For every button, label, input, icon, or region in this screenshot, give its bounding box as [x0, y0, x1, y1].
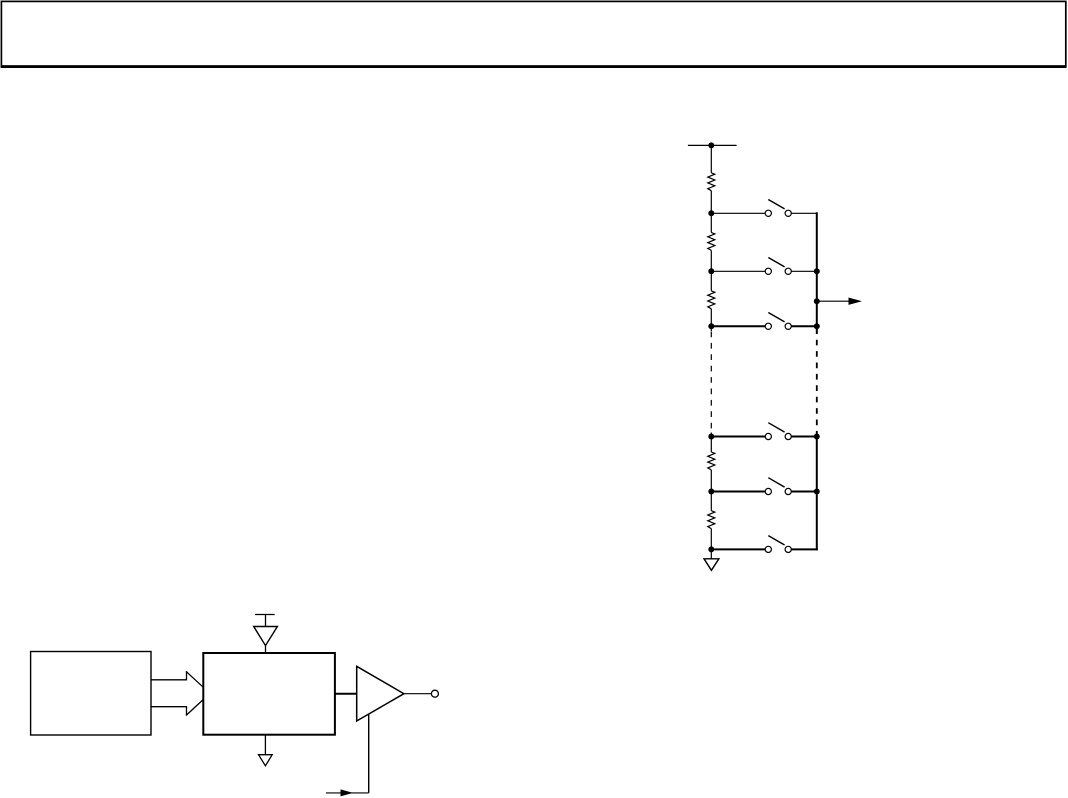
wire output bus dashed [816, 334, 818, 433]
wire row 3 right [791, 325, 817, 327]
wire triangle to box 2 top [265, 646, 267, 653]
junction dot bus output tap [814, 298, 820, 304]
wire feedback horizontal [326, 792, 369, 794]
wire row 5 left [711, 491, 765, 493]
junction dot bus row 2 [814, 268, 820, 274]
output terminal circle [431, 690, 438, 697]
ground below box 2 [259, 755, 273, 766]
wire output bus upper [816, 212, 818, 334]
header box [1, 1, 1065, 66]
wire row 2 left [711, 270, 765, 272]
wire R1 to node 1 [710, 191, 712, 233]
ground (ladder bottom) [704, 559, 719, 571]
wire row 1 left [711, 212, 765, 214]
junction dot node 4 [708, 434, 714, 440]
block latch DAC (box 2) [203, 653, 335, 735]
junction dot bus row 4 [814, 434, 820, 440]
wire node 4 to R4 [710, 433, 712, 453]
switch S3 [765, 313, 791, 330]
junction dot node 2 [708, 268, 714, 274]
junction dot bus row 3 [814, 323, 820, 329]
junction dot node 5 [708, 489, 714, 495]
junction dot top rail [708, 142, 714, 148]
wire row 1 right [791, 212, 817, 214]
switch S6 [765, 536, 791, 553]
resistor R4 [708, 452, 715, 470]
wire row 4 left [711, 436, 765, 438]
node A (top reference rail) [688, 144, 737, 146]
wire feedback vertical [368, 714, 370, 793]
wire R3 to node 3 [710, 309, 712, 331]
resistor R3 [708, 291, 715, 309]
switch S5 [765, 478, 791, 495]
wire row 3 left [711, 325, 765, 327]
wire dashed left rail [710, 332, 712, 433]
op-amp buffer U1 [357, 666, 404, 721]
junction dot bus row 5 [814, 489, 820, 495]
junction dot node 1 [708, 210, 714, 216]
wire box 2 bottom to ground [264, 735, 266, 755]
junction dot node 3 [708, 323, 714, 329]
wire output bus lower [816, 433, 818, 551]
wire R2 to node 2 [710, 250, 712, 291]
block interface register (box 1) [31, 652, 151, 736]
wire row 5 right [791, 491, 817, 493]
wire row 6 right [791, 548, 818, 550]
switch S1 [765, 200, 791, 217]
wire R4 to node 5 [710, 470, 712, 511]
ground triangle above box 2 [254, 627, 278, 646]
resistor R1 [708, 173, 715, 191]
wire row 4 right [791, 436, 817, 438]
wire row 6 left [711, 548, 765, 550]
switch S4 [765, 423, 791, 440]
wire row 2 right [791, 270, 817, 272]
bus arrow box1 to box2 [151, 671, 203, 715]
wire rail to R1 [710, 145, 712, 172]
wire R5 to node 6 [710, 529, 712, 559]
wire box 2 to buffer [335, 693, 357, 695]
junction dot node 6 [708, 546, 714, 552]
header box bottom rule [1, 66, 1067, 68]
feedback arrowhead [341, 789, 354, 796]
wire wiper output arrow [817, 300, 850, 302]
switch S2 [765, 258, 791, 275]
power rail bar above box 2 [255, 614, 275, 616]
resistor R2 [708, 233, 715, 251]
wire bar to triangle [265, 615, 267, 627]
wire buffer output [404, 693, 431, 695]
resistor R5 [708, 511, 715, 529]
